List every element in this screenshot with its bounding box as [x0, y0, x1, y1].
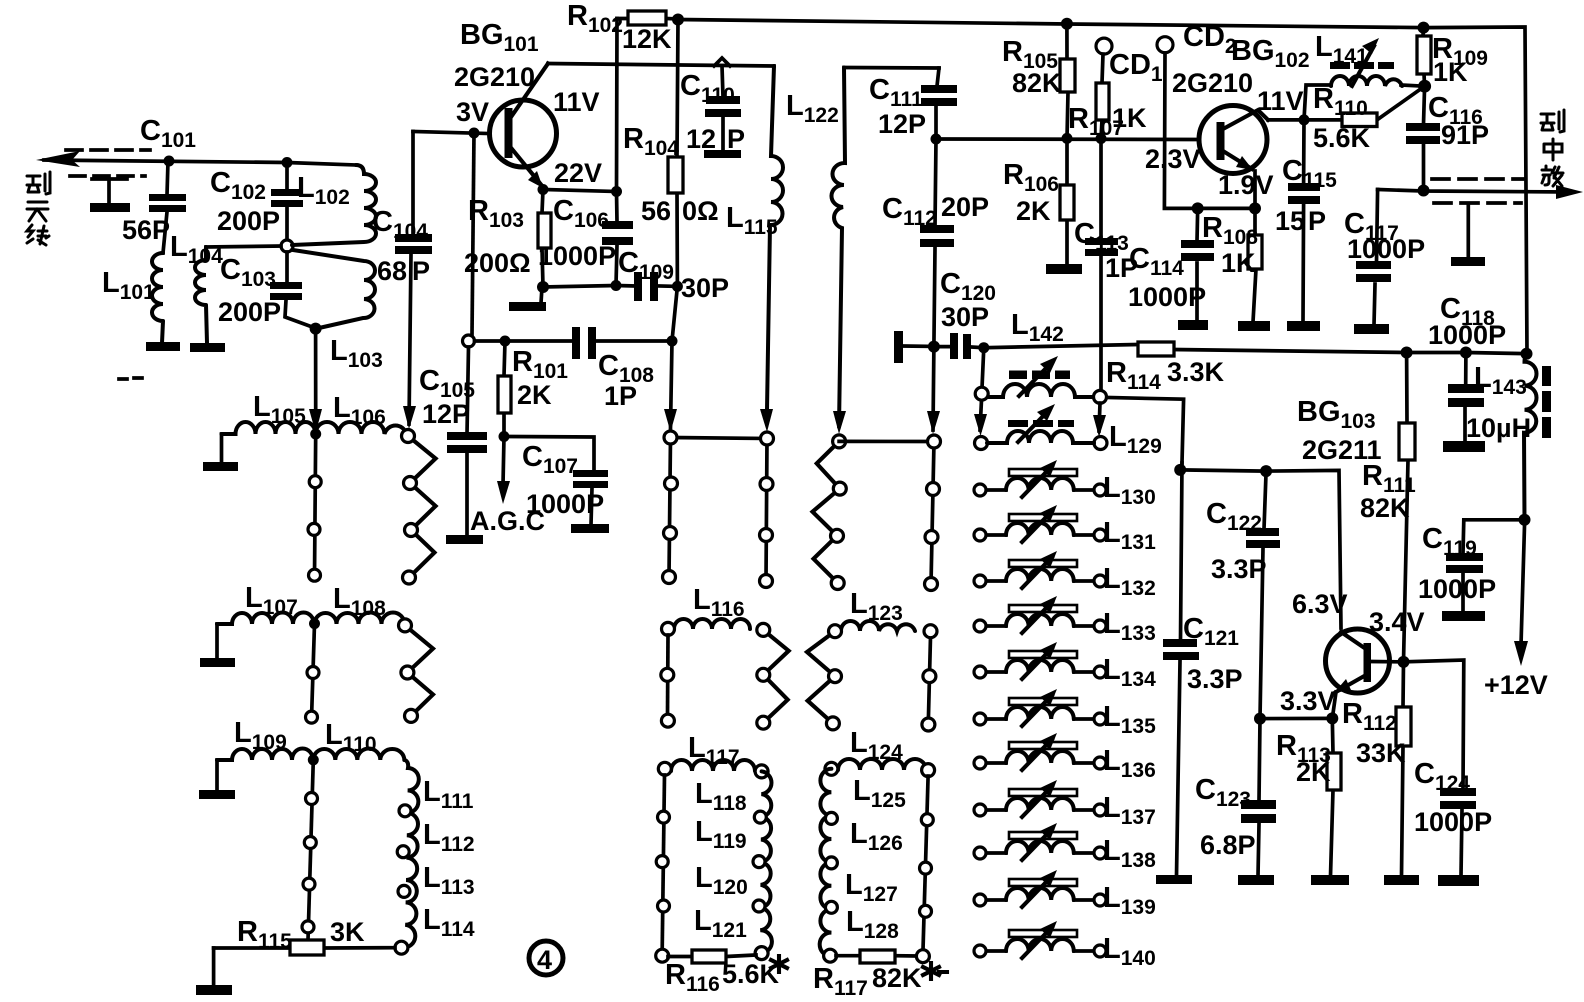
contact L124 tr	[922, 764, 935, 777]
contact D1	[833, 435, 846, 448]
wire L142 right drop	[1099, 403, 1100, 431]
resistor R115	[214, 940, 395, 955]
junction R111 top	[1401, 347, 1413, 359]
svg-text:1.9V: 1.9V	[1218, 170, 1274, 200]
wire shield dash lower right box	[1434, 201, 1521, 205]
wire L122 C111 bracket	[844, 66, 939, 70]
ground C107	[571, 524, 609, 533]
contact L117 tr	[755, 765, 768, 778]
junction base BG101	[469, 128, 480, 139]
variable inductor L136	[974, 733, 1106, 770]
contact zig3	[403, 571, 416, 584]
contact tap4	[307, 667, 319, 679]
transistor BG101	[490, 64, 557, 189]
junction base BG103	[1398, 656, 1410, 668]
capacitor C118	[1448, 353, 1484, 443]
inductor L111-L114 chain	[403, 760, 419, 947]
star R117	[923, 963, 947, 979]
variable inductor L129	[987, 404, 1094, 443]
contact D4	[831, 577, 844, 590]
wire tap chain 3	[308, 760, 313, 940]
resistor R111	[1399, 353, 1415, 662]
junction C116 bottom	[1418, 185, 1430, 197]
contact L121 b	[755, 947, 768, 960]
capacitor C114	[1181, 208, 1214, 321]
wire L104 top	[206, 246, 281, 247]
junction C122 bottom	[1254, 713, 1266, 725]
contact tap1	[309, 476, 321, 488]
inductor L107	[217, 612, 314, 624]
svg-text:1K: 1K	[1112, 103, 1147, 133]
resistor R110	[1342, 113, 1377, 127]
ground R112	[1384, 875, 1419, 885]
transistor BG103	[1326, 629, 1404, 718]
ground R113	[1311, 875, 1349, 885]
inductor L108	[315, 613, 405, 625]
resistor R104	[668, 20, 683, 287]
resistor R113	[1327, 718, 1341, 876]
capacitor C116	[1406, 86, 1440, 188]
inductor L122	[831, 68, 845, 428]
wire chain C	[931, 347, 934, 584]
inductor L124	[838, 759, 926, 770]
svg-text:11V: 11V	[1257, 86, 1304, 116]
junction +12V feed	[1519, 514, 1531, 526]
svg-text:15: 15	[1275, 206, 1305, 236]
svg-text:12: 12	[686, 124, 716, 154]
wire BG102 base row	[936, 137, 1199, 141]
terminal bar C120 left	[894, 331, 903, 363]
contact L116 c2	[661, 714, 674, 727]
wire emitter row BG102	[1198, 207, 1255, 211]
contact chainC-4	[925, 578, 938, 591]
contact L111 bottom	[399, 805, 411, 817]
junction rail right corner	[1521, 348, 1533, 360]
contact L123 right	[924, 625, 937, 638]
variable inductor L137	[974, 780, 1106, 817]
junction emitter left node	[1192, 202, 1204, 214]
contact L112 bottom	[397, 846, 409, 858]
stray mark	[119, 378, 142, 379]
contact chainB-4	[760, 575, 773, 588]
contact L116 z1	[757, 668, 770, 681]
junction C115 top	[1299, 114, 1310, 125]
junction C106 top	[611, 186, 622, 197]
contact L126 b	[825, 857, 837, 869]
resistor R105	[1060, 24, 1075, 139]
wire tap chain 1	[315, 434, 316, 577]
capacitor C104	[395, 132, 432, 425]
junction C122 top	[1260, 465, 1272, 477]
svg-text:2K: 2K	[1016, 196, 1051, 226]
svg-text:68: 68	[377, 256, 407, 286]
junction C120 chainC	[928, 341, 940, 353]
ground R108 divider	[1046, 264, 1082, 274]
arrowhead to L129 left	[974, 414, 987, 436]
ground L109	[215, 760, 219, 790]
ground shield	[92, 179, 127, 203]
contact chainA-2	[665, 477, 678, 490]
capacitor C105	[447, 347, 487, 536]
wire L142 left drop	[980, 348, 984, 430]
svg-text:3.4V: 3.4V	[1369, 607, 1425, 637]
wire tank to L105 with arrow	[314, 329, 318, 415]
contact L117 bl	[656, 949, 669, 962]
ground L107	[215, 624, 219, 659]
variable inductor L133	[974, 596, 1106, 633]
capacitor C124	[1440, 788, 1476, 876]
svg-text:82K: 82K	[1360, 493, 1410, 523]
contact tap3	[309, 569, 321, 581]
capacitor C122	[1246, 471, 1280, 718]
wiper zigzag D	[813, 441, 840, 583]
contact chainB-1	[761, 432, 774, 445]
capacitor C109	[634, 272, 658, 301]
contact L113 bottom	[398, 885, 410, 897]
svg-text:2G210: 2G210	[1172, 68, 1253, 98]
svg-text:2G210: 2G210	[454, 62, 535, 92]
wire BG103 emitter row	[1260, 717, 1332, 721]
capacitor C115	[1288, 120, 1320, 322]
ground C105	[446, 535, 483, 544]
wire C109 row	[543, 286, 677, 288]
resistor R114	[1138, 342, 1174, 356]
wire tap chain 2	[312, 624, 315, 719]
contact chainC-1	[928, 435, 941, 448]
capacitor C110	[704, 58, 741, 158]
contact L117 l2	[656, 856, 668, 868]
junction L142 top left	[978, 342, 989, 353]
contact L117 l1	[658, 811, 670, 823]
capacitor C102	[271, 162, 303, 241]
variable inductor L130	[974, 460, 1106, 497]
junction C101 top	[164, 156, 175, 167]
svg-text:200P: 200P	[218, 297, 281, 327]
capacitor C106	[602, 192, 633, 286]
arrowhead L115 to chain B	[760, 409, 773, 432]
wire collector BG101 row	[548, 64, 774, 67]
junction R109 top rail	[1418, 22, 1430, 34]
svg-text:2K: 2K	[1296, 757, 1331, 787]
svg-text:12P: 12P	[422, 399, 470, 429]
svg-text:82K: 82K	[1012, 68, 1062, 98]
contact L120 b	[753, 900, 765, 912]
wire L116 left chain	[666, 635, 670, 715]
contact zig2	[405, 524, 418, 537]
contact L124 r2	[920, 862, 932, 874]
contact D3	[831, 529, 844, 542]
wire R104 down to switch	[671, 286, 678, 428]
wire BG103 collector row	[1180, 470, 1341, 628]
svg-text:3K: 3K	[330, 917, 365, 947]
arrowhead chain A	[664, 409, 677, 432]
inductor L109	[217, 748, 313, 760]
capacitor C107	[573, 470, 608, 488]
variable inductor L142	[988, 356, 1094, 397]
wire AGC row	[475, 339, 673, 343]
contact L123 z2	[826, 717, 839, 730]
resistor R116	[668, 950, 756, 963]
label 到天线 (to antenna)	[27, 172, 50, 245]
junction C118 top	[1460, 347, 1472, 359]
ground L101	[146, 342, 180, 351]
svg-text:3V: 3V	[456, 97, 489, 127]
svg-text:1000P: 1000P	[1414, 807, 1492, 837]
variable inductor L135	[974, 689, 1106, 726]
contact L116 z2	[757, 716, 770, 729]
variable inductor L131	[974, 505, 1106, 542]
page number circle 4	[529, 941, 563, 975]
svg-text:91P: 91P	[1441, 120, 1489, 150]
contact L123 z1	[829, 670, 842, 683]
svg-text:3.3K: 3.3K	[1167, 357, 1225, 387]
ground C119	[1442, 611, 1485, 621]
contact zig1	[404, 477, 417, 490]
contact chainC-3	[925, 531, 938, 544]
wire shield dash upper right box	[1432, 177, 1523, 181]
ground C117	[1354, 324, 1389, 334]
svg-text:P: P	[412, 256, 430, 286]
svg-text:P: P	[1308, 206, 1326, 236]
wire chain B	[766, 439, 767, 582]
ground R115	[212, 948, 216, 986]
variable inductor L138	[974, 823, 1106, 860]
terminal CD1	[1096, 38, 1112, 54]
svg-text:20P: 20P	[941, 192, 989, 222]
wiper zigzag L116	[763, 630, 788, 723]
contact L117 tl	[658, 762, 671, 775]
arrowhead +12V	[1514, 641, 1528, 666]
wire L123 right chain	[928, 637, 930, 719]
wire B+ top rail	[678, 20, 1527, 354]
terminal CD2	[1157, 37, 1173, 53]
junction C111 bottom	[931, 134, 942, 145]
contact L116 left	[662, 622, 675, 635]
variable inductor L140	[974, 921, 1106, 958]
wire antenna horizontal	[44, 160, 356, 165]
capacitor C113	[1085, 139, 1118, 391]
svg-text:P: P	[727, 124, 745, 154]
svg-text:3.3P: 3.3P	[1187, 664, 1243, 694]
junction R107 bottom	[1096, 133, 1107, 144]
svg-text:200P: 200P	[217, 206, 280, 236]
junction emitter BG101	[538, 184, 549, 195]
wire +12V drop	[1521, 526, 1525, 645]
wiper zigzag L123	[807, 631, 835, 723]
svg-text:5.6K: 5.6K	[722, 959, 780, 989]
capacitor C108	[572, 327, 596, 359]
junction R105 top	[1061, 18, 1073, 30]
wire C119 branch	[1463, 520, 1525, 612]
wire CD2 to emitter node	[1164, 53, 1197, 208]
svg-text:12K: 12K	[622, 24, 672, 54]
capacitor C123	[1241, 719, 1276, 876]
ground L104	[190, 343, 225, 352]
junction L105 L106	[310, 429, 321, 440]
resistor R112	[1396, 662, 1411, 876]
inductor L141	[1304, 38, 1425, 120]
junction R102 rail	[672, 14, 684, 26]
ground R108 emitter	[1238, 321, 1270, 331]
contact L124 tl	[825, 762, 838, 775]
junction emitter BG103	[1326, 712, 1338, 724]
transistor BG102	[1199, 106, 1268, 209]
ground C123	[1238, 875, 1274, 885]
junction C109 right	[672, 281, 683, 292]
svg-text:2.3V: 2.3V	[1145, 144, 1201, 174]
inductor L115	[767, 66, 783, 410]
svg-text:1000P: 1000P	[538, 241, 616, 271]
wire AGC arrow	[503, 437, 504, 486]
svg-text:6.8P: 6.8P	[1200, 830, 1256, 860]
resistor R109	[1417, 28, 1431, 87]
contact L127 b	[825, 901, 837, 913]
ground shield box	[1466, 204, 1470, 258]
resistor R102	[617, 11, 678, 25]
contact chainB-2	[760, 478, 773, 491]
svg-text:3.3V: 3.3V	[1280, 686, 1336, 716]
svg-text:11V: 11V	[553, 87, 600, 117]
junction R103 bottom	[537, 281, 549, 293]
capacitor C112	[920, 139, 954, 347]
svg-text:1P: 1P	[604, 381, 637, 411]
contact chainA-4	[663, 571, 676, 584]
svg-text:1000P: 1000P	[1428, 320, 1506, 350]
svg-text:30P: 30P	[681, 273, 729, 303]
capacitor C101	[149, 161, 186, 253]
wire IF output row	[1378, 190, 1570, 193]
svg-text:5.6K: 5.6K	[1313, 123, 1371, 153]
wire shield dashes top	[66, 148, 150, 152]
contact zig4	[401, 666, 414, 679]
inductor L118 L119 L120 L121 right coil	[760, 771, 772, 953]
wire L117 left side	[662, 775, 664, 950]
inductor L110	[313, 749, 404, 760]
capacitor C120	[940, 333, 984, 359]
svg-text:30P: 30P	[941, 302, 989, 332]
wire base down AGC	[472, 133, 474, 335]
inductor L123	[841, 621, 915, 631]
junction C108 right	[667, 336, 678, 347]
arrowhead L122 to wiper	[833, 411, 846, 434]
junction R105 bottom	[1062, 133, 1073, 144]
wire emitter row BG101	[543, 190, 617, 192]
wire bridge A-B	[671, 438, 768, 439]
junction emitter right node	[1249, 202, 1261, 214]
contact chainC-2	[927, 483, 940, 496]
capacitor C111	[921, 68, 957, 139]
contact L124 br	[916, 950, 929, 963]
contact AGC row left	[463, 335, 475, 347]
contact L114 bottom	[395, 941, 408, 954]
arrowhead chain C	[927, 411, 940, 434]
junction L141 R109 C116	[1418, 80, 1431, 93]
resistor R108 emitter	[1248, 208, 1262, 322]
wire C120 left stub	[903, 344, 934, 348]
junction C106 bottom	[611, 280, 622, 291]
contact L119 b	[753, 856, 765, 868]
contact tap8	[303, 878, 315, 890]
wire chain A	[669, 437, 671, 577]
wire L142 to BG103 collector	[1107, 398, 1184, 464]
svg-text:56: 56	[641, 196, 671, 226]
wiper zigzag L106	[408, 436, 436, 578]
inductor L102	[292, 165, 376, 245]
label 到中放 (to IF amp)	[1541, 110, 1564, 186]
inductor L103	[293, 250, 375, 328]
contact L128 b	[824, 949, 837, 962]
contact L116 right	[757, 623, 770, 636]
resistor R117	[836, 950, 916, 963]
contact chainB-3	[760, 529, 773, 542]
contact L123 c1	[923, 670, 936, 683]
junction R101 top	[500, 336, 511, 347]
star R116	[771, 956, 787, 972]
svg-text:12P: 12P	[878, 109, 926, 139]
contact tap2	[308, 523, 320, 535]
contact L123 left	[829, 625, 842, 638]
inductor L104	[195, 247, 207, 343]
svg-text:10µH: 10µH	[1466, 413, 1531, 443]
resistor R107	[1096, 54, 1109, 139]
capacitor C103	[270, 252, 315, 328]
svg-text:22V: 22V	[554, 158, 602, 188]
ground C121	[1156, 875, 1192, 884]
ground C124	[1438, 875, 1479, 886]
contact L116 c1	[661, 668, 674, 681]
contact L117 l3	[658, 900, 670, 912]
contact tap9	[302, 921, 314, 933]
svg-text:4: 4	[537, 945, 552, 975]
svg-text:82K: 82K	[872, 963, 922, 993]
inductor L116	[674, 619, 750, 629]
inductor L143	[1524, 354, 1551, 520]
svg-text:1000P: 1000P	[1347, 234, 1425, 264]
contact L129 right	[1094, 437, 1107, 450]
svg-text:33K: 33K	[1356, 738, 1406, 768]
contact L108 end	[399, 619, 412, 632]
inductor L125 L126 L127 L128 left coil	[820, 769, 832, 956]
wiper zigzag L108	[405, 625, 433, 716]
junction C121 top	[1174, 464, 1186, 476]
wire L124 right side	[923, 776, 928, 950]
resistor R106 divider	[1060, 138, 1074, 265]
resistor R103	[538, 190, 551, 288]
svg-text:1000P: 1000P	[1418, 574, 1496, 604]
svg-text:1000P: 1000P	[1128, 282, 1206, 312]
variable inductor L139	[974, 870, 1106, 907]
svg-text:1K: 1K	[1221, 248, 1256, 278]
contact chainA-3	[664, 527, 677, 540]
svg-text:1K: 1K	[1433, 57, 1468, 87]
svg-text:3.3P: 3.3P	[1211, 554, 1267, 584]
inductor L117	[671, 760, 755, 771]
wire bridge D-C	[839, 440, 934, 444]
contact zig5	[405, 709, 418, 722]
junction L109 L110	[308, 754, 319, 765]
arrowhead IF output	[1556, 185, 1583, 199]
contact L124 r1	[921, 814, 933, 826]
capacitor C117	[1356, 190, 1391, 326]
junction C102 top	[282, 157, 293, 168]
antenna arrowhead	[36, 151, 80, 167]
ground L105	[220, 434, 224, 463]
contact D2	[833, 482, 846, 495]
ground R103	[541, 287, 542, 303]
junction L107 L108	[309, 618, 320, 629]
contact tap6	[306, 793, 318, 805]
inductor L106	[316, 422, 407, 434]
